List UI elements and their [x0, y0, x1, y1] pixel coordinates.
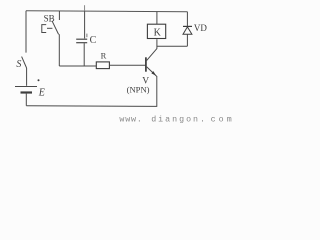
diode VD triangle [183, 27, 192, 34]
svg-text:E: E [38, 87, 45, 98]
capacitor C top lead overshoot [84, 5, 86, 11]
wire left vertical mid [26, 68, 28, 86]
relay coil K box [147, 24, 165, 38]
svg-text:VD: VD [194, 23, 207, 33]
relay coil K top lead [156, 12, 158, 25]
transistor V base bar [145, 57, 147, 71]
capacitor C top plate [76, 38, 87, 40]
pushbutton SB bottom lead [58, 34, 60, 66]
transistor V emitter diagonal [147, 67, 157, 76]
diode VD top lead [186, 12, 188, 27]
capacitor C top lead [84, 11, 86, 38]
svg-text:C: C [90, 35, 97, 46]
diode VD bottom lead [186, 34, 188, 46]
transistor V emitter arrowhead [151, 71, 156, 76]
pushbutton SB actuator dash [47, 27, 52, 29]
transistor V collector diagonal [147, 49, 157, 61]
battery E plus dot [38, 79, 40, 81]
resistor R box [96, 62, 109, 69]
svg-text:com: com [211, 116, 235, 125]
capacitor C polarity tick [86, 34, 88, 38]
wire top rail [26, 10, 187, 13]
svg-text:(NPN): (NPN) [127, 84, 150, 94]
pushbutton SB top lead [58, 11, 60, 20]
transistor V emitter vertical [156, 76, 158, 106]
svg-text:S: S [16, 59, 21, 70]
wire loop bottom [157, 45, 188, 47]
svg-text:www.: www. [119, 116, 142, 125]
diode VD cathode bar [183, 25, 192, 27]
wire mid line left [59, 65, 96, 67]
transistor V collector vertical [156, 39, 158, 49]
capacitor C bottom lead [83, 43, 85, 66]
wire left vertical lower [25, 94, 27, 106]
wire base line [109, 64, 145, 66]
pushbutton SB actuator bracket [42, 25, 46, 33]
battery E positive plate [15, 86, 37, 88]
svg-text:R: R [101, 51, 107, 61]
svg-text:K: K [154, 27, 162, 38]
wire bottom rail [26, 105, 157, 108]
capacitor C bottom plate [76, 42, 87, 44]
svg-text:diangon.: diangon. [151, 115, 207, 125]
battery E negative plate [21, 91, 33, 93]
wire left vertical upper [25, 11, 27, 53]
switch S blade [22, 57, 27, 68]
pushbutton SB blade [52, 21, 59, 35]
